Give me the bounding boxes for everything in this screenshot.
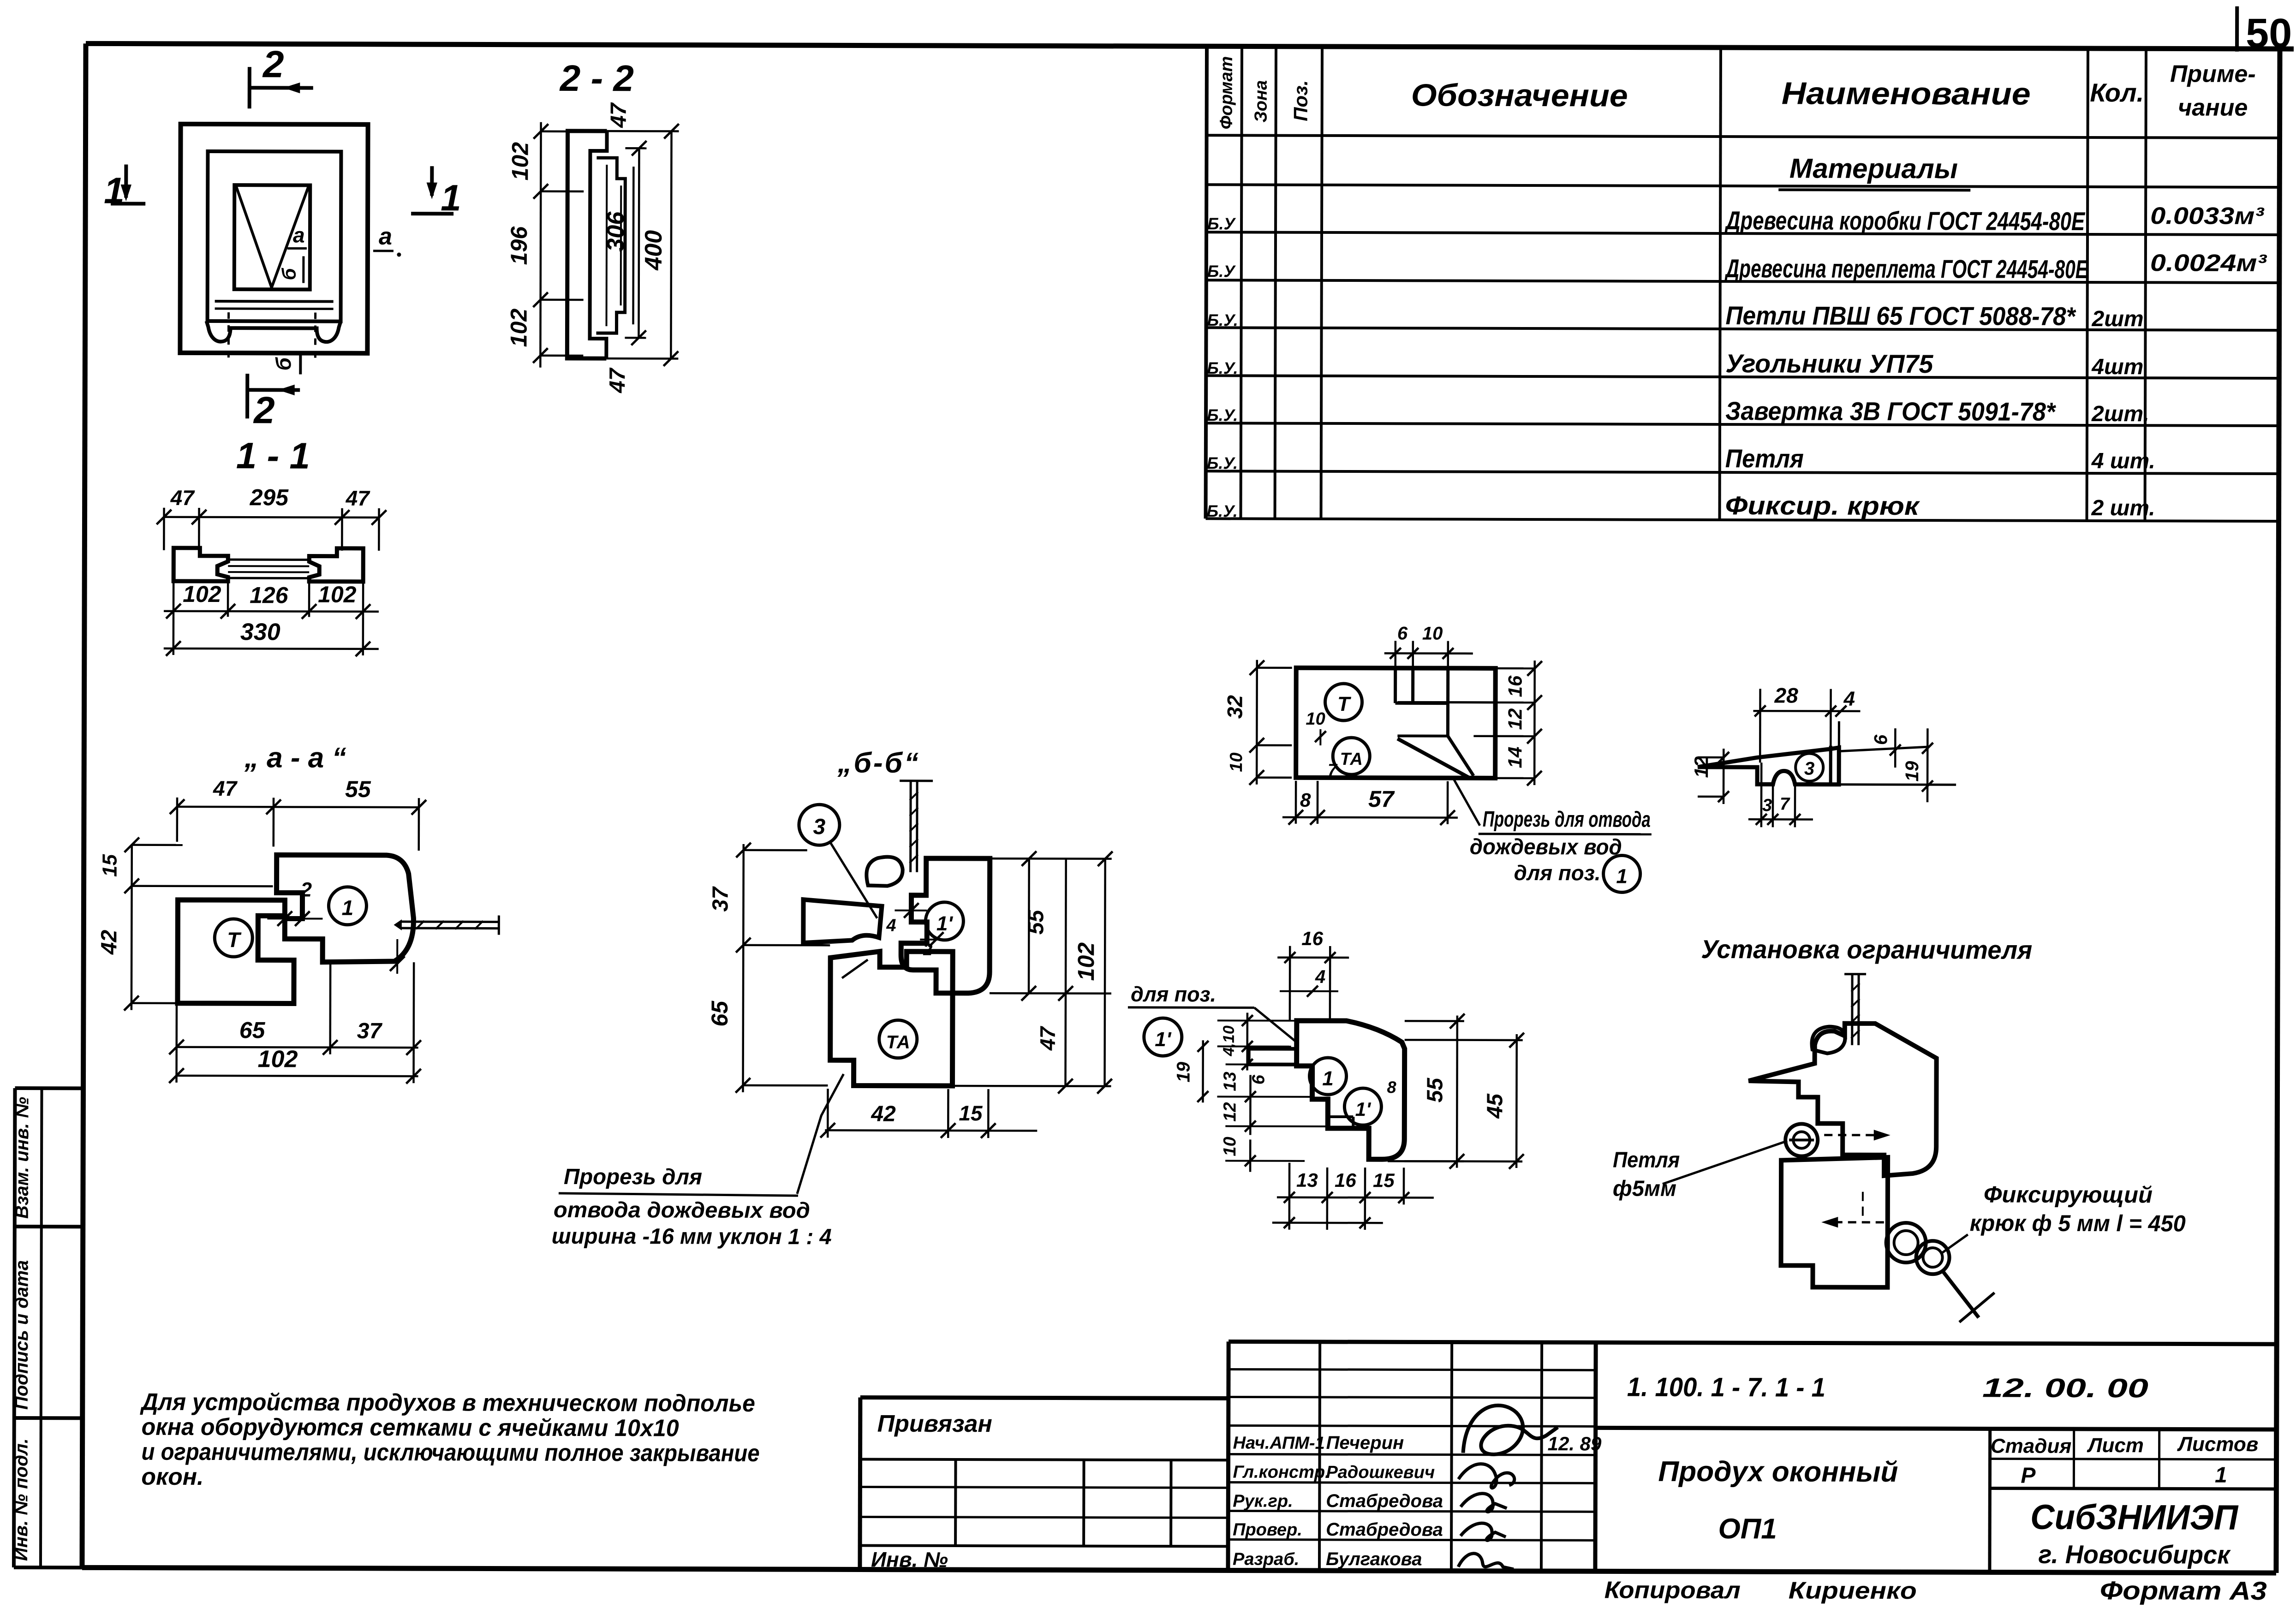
svg-text:45: 45 (1483, 1093, 1507, 1119)
svg-text:10: 10 (1227, 752, 1246, 772)
detail1pr left dim stack (1197, 1012, 1328, 1172)
svg-text:2шт.: 2шт. (2091, 402, 2149, 426)
section b-b TA inner dash (842, 959, 868, 978)
svg-text:12: 12 (1504, 709, 1526, 730)
svg-text:400: 400 (640, 230, 667, 271)
svg-text:47: 47 (170, 486, 196, 510)
svg-text:1: 1 (1322, 1067, 1334, 1090)
svg-text:57: 57 (1368, 786, 1395, 812)
ustanovka beak (1812, 1027, 1845, 1054)
ustanovka hook ring small (1916, 1241, 1950, 1274)
detail3 left dim line (1698, 749, 1729, 804)
svg-text:Фиксир. крюк: Фиксир. крюк (1725, 491, 1920, 520)
svg-text:Стадия: Стадия (1991, 1435, 2072, 1457)
detail1pr top dim 16 (1277, 946, 1349, 1021)
svg-text:ширина -16 мм уклон 1 : 4: ширина -16 мм уклон 1 : 4 (552, 1224, 832, 1249)
section b-b callout leader 3 (830, 842, 877, 918)
svg-text:47: 47 (1036, 1025, 1060, 1051)
svg-text:102: 102 (506, 309, 531, 347)
svg-text:Петля: Петля (1725, 444, 1804, 473)
section 2-2 glass edge line (632, 167, 634, 324)
svg-text:Лист: Лист (2087, 1434, 2144, 1457)
svg-text:102: 102 (318, 582, 357, 607)
svg-text:65: 65 (707, 1001, 733, 1027)
detail1pr inner step (1328, 1117, 1353, 1128)
svg-text:Б.У.: Б.У. (1207, 310, 1238, 329)
front view bottom ledge (206, 321, 340, 342)
svg-text:15: 15 (99, 854, 121, 877)
svg-text:55: 55 (1024, 909, 1048, 935)
detail3 right dim line (1922, 728, 1933, 802)
detail TTA callout circle 1 (1604, 855, 1640, 892)
section 1-1 right block (309, 548, 363, 582)
section a-a circle T (215, 919, 252, 957)
svg-text:102: 102 (183, 581, 221, 607)
svg-text:7: 7 (1328, 760, 1338, 779)
section a-a top dim line (170, 798, 426, 851)
detail TTA circle T (1325, 684, 1362, 721)
svg-text:Древесина коробки ГОСТ 24454-8: Древесина коробки ГОСТ 24454-80Е (1724, 206, 2086, 236)
svg-text:1: 1 (441, 177, 461, 218)
ustanovka screw (1844, 974, 1866, 1045)
section b-b circle 1pr (925, 902, 963, 940)
svg-text:2: 2 (262, 43, 284, 85)
svg-text:196: 196 (506, 226, 532, 265)
front view section mark 2 bottom (247, 374, 300, 418)
signature squiggle 4 (1461, 1523, 1506, 1541)
section 1-1 top dim line (156, 508, 386, 551)
svg-text:а: а (293, 223, 305, 247)
svg-text:295: 295 (250, 484, 289, 510)
svg-text:14: 14 (1504, 747, 1526, 768)
svg-text:47: 47 (607, 102, 631, 128)
section b-b bottom dim line (820, 1089, 1037, 1138)
svg-text:2шт: 2шт (2092, 307, 2144, 331)
stage table grid (1990, 1429, 2277, 1573)
svg-text:32: 32 (1223, 695, 1246, 719)
svg-text:Б.У.: Б.У. (1207, 358, 1238, 377)
svg-text:Подпись и дата: Подпись и дата (12, 1260, 32, 1410)
svg-text:4,10: 4,10 (1220, 1025, 1238, 1056)
svg-text:Провер.: Провер. (1233, 1520, 1302, 1539)
front view section mark 2 top (250, 67, 313, 108)
section 1-1 glazing lines (228, 560, 309, 578)
ustanovka dashed vertical (1862, 1192, 1864, 1216)
svg-text:65: 65 (239, 1017, 266, 1043)
svg-text:1': 1' (1155, 1028, 1172, 1051)
ustanovka upper sash piece (1748, 1023, 1937, 1176)
svg-text:б: б (271, 357, 295, 370)
section a-a circle 1 (328, 887, 366, 925)
svg-text:1: 1 (342, 896, 354, 920)
svg-text:16: 16 (1504, 675, 1526, 697)
section b-b prorez leader (797, 1074, 844, 1194)
detail1pr profile (1296, 1021, 1405, 1160)
svg-text:1: 1 (2215, 1463, 2227, 1488)
svg-text:15: 15 (1373, 1169, 1395, 1191)
svg-text:Фиксирующий: Фиксирующий (1984, 1181, 2153, 1208)
svg-text:Наименование: Наименование (1782, 76, 2031, 111)
signature squiggle 3 (1461, 1494, 1507, 1512)
svg-text:0.0024м³: 0.0024м³ (2150, 250, 2267, 277)
svg-text:окон.: окон. (141, 1464, 203, 1490)
ustanovka dashed arrow upper (1824, 1130, 1890, 1140)
ustanovka hinge inner circle (1793, 1132, 1810, 1148)
svg-text:28: 28 (1774, 683, 1799, 707)
svg-text:4шт: 4шт (2091, 355, 2143, 379)
svg-text:Прорезь для отвода: Прорезь для отвода (1483, 807, 1651, 832)
svg-text:2: 2 (923, 940, 932, 959)
svg-text:крюк ф 5 мм l = 450: крюк ф 5 мм l = 450 (1970, 1210, 2186, 1236)
svg-text:3: 3 (1804, 758, 1814, 779)
section 1-1 bottom dim line (164, 617, 379, 656)
front view label b tick (299, 353, 302, 375)
svg-text:126: 126 (250, 582, 289, 608)
svg-text:Кол.: Кол. (2090, 78, 2144, 107)
svg-text:13: 13 (1220, 1072, 1240, 1091)
section b-b beak shape (866, 857, 902, 886)
svg-text:15: 15 (959, 1101, 983, 1125)
svg-text:ф5мм: ф5мм (1613, 1176, 1676, 1201)
ustanovka hook ring big (1886, 1223, 1926, 1263)
svg-text:3: 3 (813, 815, 825, 839)
svg-text:Петля: Петля (1613, 1148, 1680, 1172)
ustanovka petlya leader (1663, 1141, 1787, 1185)
svg-text:Разраб.: Разраб. (1233, 1549, 1299, 1569)
section b-b small dim ticks (895, 903, 950, 947)
title block outline (860, 1340, 2277, 1572)
svg-text:Угольники УП75: Угольники УП75 (1725, 349, 1933, 378)
svg-text:Нач.АПМ-1: Нач.АПМ-1 (1233, 1433, 1325, 1453)
svg-text:Б.У.: Б.У. (1207, 405, 1238, 424)
section 1-1 mid dim line (164, 581, 379, 619)
detail TTA inner step lines (1395, 668, 1495, 736)
section a-a piece 1 sash profile (276, 855, 414, 962)
svg-text:102: 102 (258, 1046, 298, 1072)
svg-text:47: 47 (605, 367, 630, 393)
svg-text:Б.У.: Б.У. (1207, 453, 1238, 472)
svg-text:ОП1: ОП1 (1718, 1513, 1777, 1545)
svg-text:Кириенко: Кириенко (1789, 1577, 1917, 1604)
svg-text:2: 2 (300, 879, 312, 901)
svg-text:Формат: Формат (1217, 56, 1236, 130)
detail1pr bottom dim line (1272, 1163, 1434, 1230)
svg-text:Прорезь для: Прорезь для (564, 1165, 702, 1190)
svg-text:„б-б“: „б-б“ (837, 747, 920, 779)
section b-b right dim lines (952, 851, 1112, 1094)
detail TTA bottom dim line (1282, 781, 1458, 825)
detail TTA top dim line (1384, 641, 1473, 672)
svg-text:Т: Т (227, 928, 242, 952)
svg-text:ТА: ТА (1340, 750, 1363, 769)
ustanovka hinge outer circle (1785, 1124, 1818, 1156)
front view hidden line right (314, 313, 316, 358)
svg-text:4: 4 (886, 916, 896, 935)
detail1pr right dim lines (1388, 1013, 1524, 1169)
ustanovka hook tail (1943, 1271, 1979, 1317)
svg-text:47: 47 (213, 776, 238, 800)
detail1pr dim 4 small (1280, 986, 1338, 997)
ustanovka dashed arrow lower (1822, 1217, 1884, 1227)
detail1pr tab (1249, 1049, 1297, 1065)
front view vent opening (234, 185, 310, 289)
detail1pr leader (1254, 1008, 1299, 1044)
svg-text:Привязан: Привязан (877, 1411, 992, 1438)
front view inner frame (208, 151, 341, 322)
ustanovka hook leader (1942, 1234, 1968, 1253)
svg-text:50: 50 (2246, 11, 2292, 57)
svg-text:Завертка 3В ГОСТ 5091-78*: Завертка 3В ГОСТ 5091-78* (1725, 396, 2056, 426)
svg-text:10: 10 (1306, 709, 1325, 729)
svg-text:42: 42 (97, 929, 121, 955)
svg-text:окна оборудуются сетками с яче: окна оборудуются сетками с ячейками 10х1… (142, 1414, 679, 1442)
svg-text:Б.У: Б.У (1207, 262, 1236, 280)
svg-text:1 - 1: 1 - 1 (236, 435, 310, 476)
svg-text:Инв. №: Инв. № (871, 1548, 948, 1572)
svg-text:12. 89: 12. 89 (1548, 1433, 1602, 1454)
svg-text:Стабредова: Стабредова (1326, 1519, 1443, 1540)
svg-text:Т: Т (1337, 693, 1351, 715)
detail TTA circle TA (1333, 738, 1370, 774)
front view hidden line left (227, 312, 230, 357)
signature squiggle 1 (1463, 1406, 1558, 1455)
section 2-2 sash profile (596, 158, 625, 333)
svg-text:Стабредова: Стабредова (1326, 1491, 1443, 1512)
detail3 top dim line (1753, 689, 1860, 763)
page number 50 tick (2235, 6, 2239, 52)
svg-text:Р: Р (2021, 1464, 2036, 1488)
section b-b screw rod (900, 781, 933, 872)
svg-text:СибЗНИИЭП: СибЗНИИЭП (2030, 1498, 2238, 1537)
detail3 circle 3 (1795, 753, 1823, 781)
svg-text:Б.У.: Б.У. (1207, 501, 1238, 520)
svg-text:Продух оконный: Продух оконный (1658, 1456, 1898, 1488)
svg-text:4: 4 (1843, 688, 1855, 710)
detail TTA right dim line (1473, 661, 1542, 786)
svg-text:8: 8 (1300, 789, 1311, 811)
detail TTA left dim line (1249, 660, 1292, 785)
svg-text:Для устройства продухов в техн: Для устройства продухов в техническом по… (140, 1389, 755, 1417)
svg-text:Формат А3: Формат А3 (2100, 1576, 2267, 1605)
svg-text:и ограничителями, исключающими: и ограничителями, исключающими полное за… (141, 1439, 759, 1467)
detail TTA drainage slot slants (1397, 736, 1473, 778)
section b-b callout circle 3 (799, 804, 840, 845)
ustanovka lower frame piece (1781, 1157, 1888, 1287)
privyazan block grid (860, 1459, 1228, 1546)
ustanovka hook tail tick (1959, 1292, 1994, 1322)
svg-text:47: 47 (346, 486, 371, 510)
svg-text:дождевых вод: дождевых вод (1470, 835, 1622, 860)
svg-text:3: 3 (1762, 796, 1772, 815)
svg-text:отвода дождевых вод: отвода дождевых вод (554, 1198, 810, 1223)
svg-text:1. 100. 1 - 7. 1 - 1: 1. 100. 1 - 7. 1 - 1 (1627, 1372, 1825, 1403)
svg-text:Инв. № подл.: Инв. № подл. (11, 1438, 32, 1561)
signature squiggle 5 (1458, 1554, 1514, 1569)
svg-text:4 шт.: 4 шт. (2091, 449, 2155, 473)
svg-text:37: 37 (357, 1019, 383, 1043)
left stamp column outline (14, 1088, 83, 1567)
front view outer frame (180, 124, 368, 353)
materials table grid (1206, 46, 2280, 521)
svg-text:Радошкевич: Радошкевич (1326, 1463, 1435, 1483)
svg-text:Взам. инв. №: Взам. инв. № (12, 1097, 33, 1219)
svg-text:1: 1 (1616, 865, 1628, 887)
svg-text:2 шт.: 2 шт. (2091, 496, 2155, 520)
svg-text:42: 42 (871, 1102, 896, 1126)
svg-text:306: 306 (602, 211, 629, 252)
detail1pr callout circle (1144, 1018, 1182, 1056)
detail TTA leader line (1452, 777, 1480, 826)
front view section mark 1 right (411, 166, 453, 214)
svg-text:7: 7 (1780, 794, 1790, 814)
section a-a lower tick (390, 939, 405, 974)
svg-text:г. Новосибирск: г. Новосибирск (2038, 1540, 2231, 1569)
svg-text:Гл.констр.: Гл.констр. (1233, 1462, 1330, 1482)
svg-text:12. 00. 00: 12. 00. 00 (1982, 1373, 2148, 1403)
svg-text:Листов: Листов (2177, 1433, 2259, 1455)
svg-text:2: 2 (253, 389, 275, 431)
section b-b circle TA (879, 1020, 917, 1058)
title block signature grid (1228, 1341, 1596, 1571)
svg-text:8: 8 (1387, 1078, 1396, 1096)
svg-text:для поз.: для поз. (1514, 861, 1601, 885)
svg-text:Установка ограничителя: Установка ограничителя (1701, 935, 2032, 965)
svg-text:б: б (278, 268, 300, 280)
svg-text:„ а - а “: „ а - а “ (244, 742, 346, 774)
section 1-1 left block (173, 548, 228, 581)
section a-a bottom dim line 65-37 (169, 962, 421, 1055)
svg-text:Печерин: Печерин (1326, 1433, 1404, 1453)
detail TTA outline (1296, 668, 1496, 778)
ustanovka hinge diameter line (1789, 1138, 1814, 1141)
svg-text:1': 1' (1355, 1098, 1372, 1120)
section a-a small ticks (267, 911, 322, 926)
svg-text:а: а (379, 223, 392, 250)
svg-text:ТА: ТА (886, 1032, 910, 1053)
svg-text:для поз.: для поз. (1131, 982, 1216, 1006)
section a-a bottom dim line 102 (169, 1054, 421, 1084)
svg-text:12: 12 (1220, 1102, 1240, 1121)
section a-a piece T frame profile (178, 900, 294, 1004)
svg-text:Рук.гр.: Рук.гр. (1233, 1491, 1293, 1511)
svg-text:Петли ПВШ 65 ГОСТ 5088-78*: Петли ПВШ 65 ГОСТ 5088-78* (1726, 301, 2076, 331)
svg-text:чание: чание (2178, 94, 2248, 121)
svg-text:19: 19 (1174, 1061, 1194, 1082)
svg-text:1': 1' (936, 912, 954, 935)
svg-text:19: 19 (1902, 761, 1922, 781)
svg-text:Б.У: Б.У (1207, 214, 1236, 233)
signature squiggle 2 (1458, 1464, 1514, 1488)
svg-text:Обозначение: Обозначение (1411, 77, 1628, 113)
svg-text:10: 10 (1220, 1137, 1240, 1156)
svg-text:330: 330 (240, 619, 280, 645)
svg-text:102: 102 (507, 142, 533, 181)
section 2-2 dim line 400 (606, 124, 679, 366)
section 2-2 frame profile (567, 131, 607, 358)
svg-text:6: 6 (1397, 623, 1408, 643)
svg-text:4: 4 (1315, 967, 1325, 987)
svg-text:Поз.: Поз. (1290, 80, 1312, 121)
section a-a screw rod (394, 915, 499, 935)
section b-b left tongue piece (803, 899, 882, 943)
svg-text:55: 55 (1423, 1077, 1447, 1102)
section 2-2 dim line 306 (625, 141, 646, 345)
front view section mark 1 left (111, 165, 145, 204)
detail1pr circle 1 (1309, 1058, 1346, 1095)
svg-text:55: 55 (345, 776, 371, 802)
svg-text:13: 13 (1296, 1169, 1318, 1191)
section b-b piece 1pr upper sash (901, 858, 990, 993)
svg-text:0.0033м³: 0.0033м³ (2150, 202, 2265, 230)
detail3 profile strip (1698, 747, 1839, 785)
svg-text:Древесина переплета ГОСТ 24454: Древесина переплета ГОСТ 24454-80Е (1724, 254, 2088, 284)
detail3 double edge lines (1831, 721, 1956, 787)
svg-text:10: 10 (1422, 623, 1443, 643)
svg-text:102: 102 (1073, 942, 1099, 981)
svg-text:1: 1 (104, 170, 125, 211)
section 2-2 left dim line (533, 122, 584, 368)
detail3 dim 6 line (1890, 728, 1901, 768)
detail3 bottom dims (1748, 762, 1813, 827)
svg-text:6: 6 (1871, 734, 1891, 745)
front view opening swing lines (236, 187, 309, 287)
section a-a left dim line (124, 838, 273, 1011)
svg-text:2 - 2: 2 - 2 (559, 58, 634, 99)
detail1pr circle 1pr (1344, 1088, 1381, 1125)
svg-text:6: 6 (1249, 1074, 1269, 1084)
svg-text:Приме-: Приме- (2170, 60, 2256, 87)
section b-b left dim line (735, 843, 830, 1093)
svg-text:16: 16 (1335, 1169, 1356, 1191)
svg-text:Копировал: Копировал (1604, 1577, 1741, 1604)
svg-text:16: 16 (1301, 928, 1323, 949)
section b-b piece TA lower frame (830, 951, 953, 1086)
svg-text:Булгакова: Булгакова (1326, 1549, 1422, 1570)
front view sill lines (215, 301, 334, 309)
svg-text:37: 37 (708, 886, 733, 912)
svg-text:12: 12 (1690, 756, 1712, 778)
svg-text:Материалы: Материалы (1789, 153, 1958, 184)
svg-text:Зона: Зона (1252, 80, 1271, 123)
